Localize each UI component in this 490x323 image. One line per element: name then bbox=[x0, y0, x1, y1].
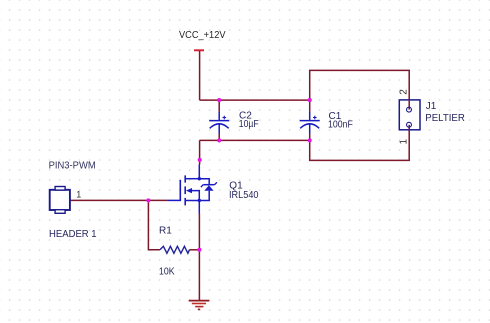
wire bottom rail bbox=[200, 139, 310, 141]
wire junction drop to R1 bbox=[148, 200, 160, 249]
wire upper loop to J1 pin 2 bbox=[310, 70, 410, 109]
svg-text:100nF: 100nF bbox=[328, 119, 353, 130]
wire lower loop to J1 pin 1 bbox=[310, 125, 410, 161]
svg-text:PIN3-PWM: PIN3-PWM bbox=[49, 161, 96, 172]
wire source to ground bbox=[198, 214, 200, 301]
wire R1 to source node bbox=[189, 249, 199, 251]
svg-text:PELTIER: PELTIER bbox=[425, 113, 465, 124]
capacitor C1 bbox=[300, 100, 353, 140]
junction C1 top bbox=[308, 98, 312, 102]
junction C1 bottom bbox=[308, 138, 312, 142]
svg-text:R1: R1 bbox=[159, 226, 172, 237]
transistor Q1 bbox=[168, 165, 259, 214]
svg-text:VCC_+12V: VCC_+12V bbox=[179, 30, 226, 41]
resistor R1 bbox=[159, 226, 189, 278]
svg-text:J1: J1 bbox=[426, 101, 437, 112]
ground bbox=[189, 301, 210, 310]
svg-text:HEADER 1: HEADER 1 bbox=[49, 229, 97, 240]
junction gate node bbox=[146, 198, 150, 202]
connector J1 PELTIER bbox=[399, 100, 465, 130]
connector HEADER 1 bbox=[49, 187, 97, 240]
power VCC_+12V bbox=[179, 30, 226, 100]
junction drain wire bbox=[198, 158, 202, 162]
junction C2 top bbox=[217, 98, 221, 102]
wire drain drop bbox=[199, 140, 201, 164]
svg-text:1: 1 bbox=[76, 190, 81, 200]
junction C2 bottom bbox=[217, 138, 221, 142]
junction source node bbox=[197, 248, 201, 252]
wire top rail bbox=[200, 99, 310, 101]
svg-text:2: 2 bbox=[399, 89, 410, 95]
body diode of Q1 bbox=[199, 179, 217, 201]
wire header to gate bbox=[70, 199, 168, 201]
capacitor C2 bbox=[209, 100, 259, 140]
svg-text:1: 1 bbox=[398, 139, 409, 145]
svg-text:10K: 10K bbox=[159, 267, 175, 278]
svg-text:10µF: 10µF bbox=[239, 119, 259, 130]
svg-text:IRL540: IRL540 bbox=[229, 190, 259, 201]
